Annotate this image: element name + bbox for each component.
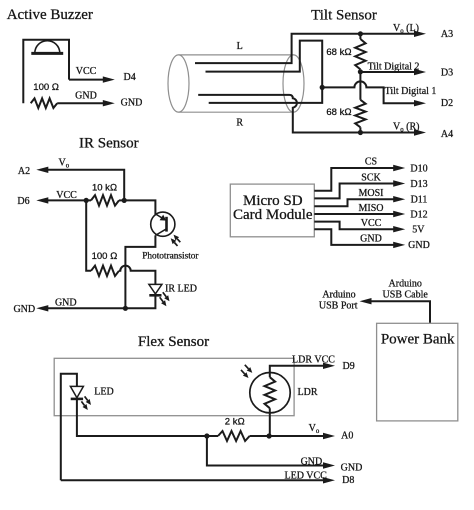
buzzer BZ1 dome — [35, 41, 60, 54]
svg-text:LED VCC: LED VCC — [285, 470, 328, 481]
svg-text:D4: D4 — [123, 72, 135, 83]
wire Tilt Digital 2 to D3 — [360, 71, 417, 73]
wire contact R2 to mid node — [209, 87, 323, 103]
svg-text:L: L — [237, 41, 243, 52]
svg-text:VCC: VCC — [76, 66, 97, 77]
light arrow from LED a — [163, 292, 166, 297]
buzzer BZ1 base — [31, 52, 63, 55]
svg-text:10 kΩ: 10 kΩ — [92, 182, 117, 193]
svg-text:100 Ω: 100 Ω — [33, 82, 59, 93]
arrow to D8 — [323, 477, 335, 483]
svg-text:D11: D11 — [411, 194, 428, 205]
svg-text:Arduino: Arduino — [322, 289, 355, 300]
light arrow into LDR a — [245, 365, 249, 369]
arrow to GND sd — [393, 242, 405, 248]
resistor R2 68k lead+zigzag — [359, 34, 361, 39]
svg-text:GND: GND — [13, 304, 35, 315]
svg-text:Card Module: Card Module — [233, 207, 313, 223]
phototransistor Q1 collector+arrow — [155, 214, 163, 219]
node flex GND junction — [204, 433, 209, 438]
svg-text:D2: D2 — [441, 98, 453, 109]
svg-text:A4: A4 — [441, 129, 453, 140]
arrow to D11 — [393, 196, 405, 202]
arrow to GND flex — [323, 462, 335, 468]
node LDR junction — [267, 433, 272, 438]
svg-text:USB Port: USB Port — [319, 301, 358, 312]
phototransistor Q1 bar — [165, 217, 168, 232]
arrow to GND — [103, 100, 115, 106]
svg-text:5V: 5V — [412, 224, 425, 235]
svg-text:D3: D3 — [441, 68, 453, 79]
wire Vo to A0 — [269, 435, 326, 437]
svg-text:LED: LED — [94, 387, 113, 398]
node mid junction — [320, 85, 325, 90]
arrow to D3 — [414, 69, 426, 75]
svg-text:GND: GND — [301, 457, 323, 468]
svg-text:Power Bank: Power Bank — [381, 332, 455, 348]
resistor R3 68k lead+zigzag — [359, 72, 361, 100]
svg-text:Tilt Digital 1: Tilt Digital 1 — [385, 86, 437, 97]
wire LED cathode run — [77, 399, 207, 436]
arrow to 5V — [393, 226, 405, 232]
wire LDR top to D9 — [270, 366, 327, 377]
svg-text:GND: GND — [408, 240, 430, 251]
arrow to A4 — [414, 129, 426, 135]
wire VCC sd — [314, 222, 396, 230]
wire 100ohm hop to LED — [119, 266, 155, 285]
diode D2 LED bar — [71, 398, 83, 401]
arrow to D12 — [393, 211, 405, 217]
light arrow into Q1 a — [177, 239, 180, 242]
phototransistor Q1 emitter — [155, 229, 166, 236]
wire Vo to A2 — [45, 170, 124, 201]
svg-text:A3: A3 — [441, 29, 453, 40]
wire 10k to node — [119, 199, 124, 201]
micro sd module box — [230, 184, 314, 237]
svg-text:Tilt Digital 2: Tilt Digital 2 — [368, 62, 420, 73]
arrow to A2 — [36, 167, 48, 173]
arrow to A3 — [414, 31, 426, 37]
resistor R6 2k lead — [207, 435, 218, 437]
wire VCC to D6 — [45, 199, 91, 201]
wire emitter to GND node — [125, 235, 155, 308]
wire LED VCC riser — [61, 374, 77, 481]
svg-text:A0: A0 — [341, 431, 353, 442]
photoresistor LDR zigzag — [265, 377, 276, 408]
flex sensor outline — [54, 358, 294, 415]
svg-text:GND: GND — [121, 97, 143, 108]
tilt cylinder right cap — [283, 55, 304, 112]
svg-text:Vo (R): Vo (R) — [393, 122, 419, 134]
svg-text:A2: A2 — [18, 166, 30, 177]
arrow to D6 — [36, 197, 48, 203]
wire contact L2 to mid node — [206, 41, 323, 88]
svg-text:2 kΩ: 2 kΩ — [225, 416, 245, 427]
wire GND to arrow IR — [45, 307, 125, 309]
svg-text:MISO: MISO — [358, 203, 383, 214]
svg-text:100 Ω: 100 Ω — [92, 251, 118, 262]
svg-text:Flex Sensor: Flex Sensor — [138, 334, 209, 350]
wire mid node hop to Tilt Digital 1 — [322, 81, 417, 103]
svg-text:D10: D10 — [410, 163, 427, 174]
wire LED cathode to GND — [125, 295, 155, 308]
wire contact L1 to top rail — [195, 34, 417, 63]
wire MOSI — [314, 199, 396, 206]
svg-text:SCK: SCK — [361, 173, 381, 184]
svg-text:D9: D9 — [342, 361, 354, 372]
wire GND sd — [314, 229, 396, 245]
power bank box — [377, 323, 458, 421]
svg-text:GND: GND — [55, 298, 77, 309]
wire node to phototransistor — [124, 200, 155, 214]
svg-text:LDR: LDR — [298, 387, 318, 398]
svg-text:R: R — [236, 117, 243, 128]
resistor R1 100 ohm — [31, 98, 58, 108]
wire 2k to LDR node — [250, 435, 270, 437]
node VCC branch — [84, 198, 89, 203]
resistor R4 10k — [91, 195, 119, 205]
light arrow from flex LED a — [85, 396, 88, 400]
svg-text:GND: GND — [75, 91, 97, 102]
svg-text:D6: D6 — [17, 196, 29, 207]
arrow to D10 — [393, 165, 405, 171]
photoresistor LDR body — [250, 373, 290, 413]
diode D1 IR LED bar — [149, 294, 161, 297]
svg-text:Phototransistor: Phototransistor — [142, 251, 199, 261]
wire buzzer top loop — [23, 40, 69, 103]
node Vo junction — [122, 198, 127, 203]
wire GND to arrow — [57, 102, 106, 104]
svg-text:GND: GND — [341, 463, 363, 474]
svg-text:MOSI: MOSI — [358, 188, 383, 199]
wire LDR bottom — [269, 408, 271, 436]
diode D2 LED triangle — [70, 386, 83, 397]
light arrow into LDR b — [241, 370, 245, 374]
wire LED VCC to D8 — [61, 479, 327, 481]
wire VCC to D4 — [69, 79, 106, 81]
wire CS — [314, 168, 396, 191]
svg-text:68 kΩ: 68 kΩ — [326, 47, 351, 58]
tilt cylinder left cap — [168, 55, 189, 112]
svg-text:USB Cable: USB Cable — [383, 290, 429, 301]
light arrow into Q1 b — [174, 243, 177, 246]
svg-text:IR LED: IR LED — [165, 284, 197, 295]
svg-text:D13: D13 — [410, 179, 427, 190]
node between resistors — [358, 69, 363, 74]
wire contact R1 with hop to bottom rail — [198, 95, 417, 133]
svg-text:D8: D8 — [342, 475, 354, 486]
node top rail junction — [358, 31, 363, 36]
svg-text:CS: CS — [365, 157, 377, 168]
wire MISO — [314, 213, 396, 215]
wire VCC branch down — [86, 200, 91, 270]
svg-text:Arduino: Arduino — [389, 278, 422, 289]
svg-text:IR Sensor: IR Sensor — [79, 136, 139, 152]
resistor R5 100 ohm — [91, 266, 119, 276]
arrow to D13 — [393, 180, 405, 186]
arrow to USB port — [360, 298, 372, 304]
wire SCK — [314, 184, 396, 199]
light arrow from flex LED b — [81, 401, 84, 405]
diode D1 IR LED triangle — [149, 284, 162, 294]
svg-text:Active Buzzer: Active Buzzer — [7, 7, 93, 23]
wire GND flex — [207, 436, 327, 466]
light arrow from LED b — [160, 297, 163, 302]
node bottom rail junction — [358, 130, 363, 135]
svg-text:D12: D12 — [410, 209, 427, 220]
arrow to A0 — [323, 433, 335, 439]
phototransistor Q1 body — [151, 212, 175, 236]
svg-text:GND: GND — [360, 233, 382, 244]
tilt cylinder body — [179, 55, 294, 112]
svg-text:Tilt Sensor: Tilt Sensor — [311, 8, 377, 24]
resistor R6 2k — [218, 431, 250, 441]
arrow to D9 — [323, 363, 335, 369]
arrow to D4 — [103, 76, 115, 82]
svg-text:68 kΩ: 68 kΩ — [326, 107, 351, 118]
wire USB cable — [368, 301, 430, 323]
svg-text:VCC: VCC — [56, 190, 77, 201]
arrow to D2 — [414, 100, 426, 106]
arrow to GND IR — [36, 305, 48, 311]
svg-text:VCC: VCC — [361, 218, 382, 229]
svg-text:LDR VCC: LDR VCC — [292, 355, 335, 366]
svg-text:Vo (L): Vo (L) — [393, 23, 419, 35]
node GND junction IR — [123, 306, 128, 311]
